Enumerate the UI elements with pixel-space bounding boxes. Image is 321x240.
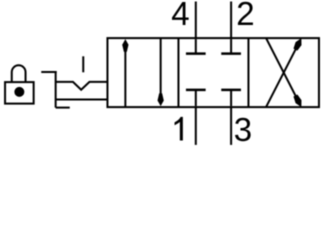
lever linkage top line (41, 71, 56, 73)
box1 up flow line (124, 44, 126, 107)
port 3 stub (230, 107, 232, 145)
box divider 1 (177, 38, 179, 107)
box3 cross flow line B (266, 38, 298, 101)
box2 blocked port top-right bar (221, 52, 241, 55)
box3 arrowhead A (293, 38, 301, 51)
box divider 2 (247, 38, 249, 107)
port 1 stub (195, 107, 197, 145)
box2 blocked port top-left stub (195, 39, 197, 54)
valve body outline (107, 38, 319, 107)
box2 blocked port top-left bar (186, 52, 206, 55)
box2 blocked port bottom-right stub (230, 90, 232, 106)
lever linkage bottom stub (56, 107, 70, 109)
port label 1 (175, 117, 183, 141)
lever linkage vertical (55, 71, 57, 108)
lever stem (82, 56, 84, 72)
padlock shackle (12, 65, 26, 81)
svg-text:2: 2 (236, 0, 254, 32)
box2 blocked port bottom-left stub (195, 90, 197, 106)
padlock keyhole dot (14, 87, 24, 97)
box2 blocked port bottom-left bar (186, 89, 206, 92)
box3 cross flow line A (266, 44, 298, 107)
port 2 stub (230, 2, 232, 39)
box1 down arrowhead (158, 93, 164, 106)
box3 arrowhead B (293, 95, 301, 108)
box2 blocked port bottom-right bar (221, 89, 241, 92)
svg-text:4: 4 (171, 0, 189, 32)
svg-text:3: 3 (234, 111, 252, 146)
detent bottom rail (56, 99, 108, 101)
port 4 stub (195, 2, 197, 39)
detent top rail with V notch (56, 82, 108, 90)
box1 up arrowhead (122, 39, 128, 52)
box1 down flow line (160, 38, 162, 100)
padlock body (5, 82, 34, 104)
box2 blocked port top-right stub (230, 39, 232, 54)
